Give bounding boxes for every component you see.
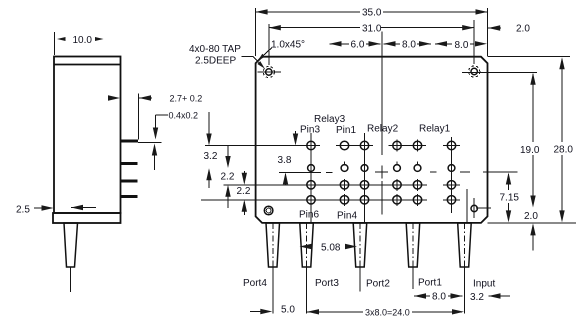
svg-text:Port2: Port2 <box>366 279 390 290</box>
svg-text:Input: Input <box>473 279 495 290</box>
screw hole bottom-left <box>264 206 273 215</box>
dim 3.2 bottom <box>470 292 510 303</box>
screw hole bottom-right <box>471 198 477 218</box>
dim 3.8 <box>278 131 299 185</box>
leader 4x tap <box>242 56 253 58</box>
svg-text:Pin3: Pin3 <box>300 125 320 136</box>
svg-text:Pin6: Pin6 <box>299 210 319 221</box>
top view body outline <box>256 57 488 223</box>
side view pin 3 <box>121 180 138 183</box>
dim 10.0 extension line <box>54 32 56 55</box>
dim 7.15 <box>483 172 519 222</box>
svg-text:3.2: 3.2 <box>204 151 218 162</box>
svg-text:2.5: 2.5 <box>16 205 30 216</box>
hole ext line right <box>462 71 537 73</box>
bottom edge extension <box>488 222 576 224</box>
svg-text:28.0: 28.0 <box>554 144 574 155</box>
top chain dim 8.0 (right) <box>435 40 487 51</box>
row1 ticks c4 c5 <box>396 140 398 152</box>
column line c3 <box>364 133 366 223</box>
dim 0.4x0.2 arrows <box>152 111 198 171</box>
dim 5.08 <box>300 243 358 254</box>
dim 31.0 <box>269 20 474 65</box>
svg-text:0.4x0.2: 0.4x0.2 <box>169 111 199 121</box>
dim 0.4x0.2 leader <box>156 114 169 116</box>
dim 2.2 upper <box>221 146 235 209</box>
side view pin 2 <box>121 162 138 165</box>
svg-text:Pin1: Pin1 <box>336 125 356 136</box>
side view fiber boot <box>64 223 78 267</box>
side view pin 1 <box>121 140 139 143</box>
screw hole top-left <box>258 66 282 77</box>
column line c6 <box>451 137 453 213</box>
svg-text:3.8: 3.8 <box>278 155 292 166</box>
dim 3x8.0=24.0 <box>307 307 464 317</box>
dim 5.0 <box>250 305 295 316</box>
leader 1.0x45 <box>261 48 272 58</box>
screw hole top-right <box>469 66 480 77</box>
port2 boot <box>353 223 367 267</box>
dim 2.7+0.2 extension line <box>138 94 140 140</box>
dim 35.0 <box>256 8 488 57</box>
svg-text:10.0: 10.0 <box>73 35 93 46</box>
input boot <box>458 223 472 267</box>
svg-text:Port1: Port1 <box>418 278 442 289</box>
pin row4 line <box>201 199 427 201</box>
svg-text:2.0: 2.0 <box>516 23 530 34</box>
svg-text:8.0: 8.0 <box>455 40 469 51</box>
svg-text:31.0: 31.0 <box>362 24 382 35</box>
svg-text:Port4: Port4 <box>243 278 267 289</box>
dim 2.5 <box>16 205 96 216</box>
svg-text:7.15: 7.15 <box>500 193 520 204</box>
svg-text:Relay3: Relay3 <box>314 114 346 125</box>
pin row1 line <box>205 145 320 147</box>
dim 2.2 lower <box>237 171 251 215</box>
svg-text:3x8.0=24.0: 3x8.0=24.0 <box>365 307 410 317</box>
svg-text:5.08: 5.08 <box>321 243 341 254</box>
svg-text:Pin4: Pin4 <box>337 211 357 222</box>
port3 boot <box>300 223 314 267</box>
axis dash-dot line <box>279 171 470 173</box>
side view lid line <box>54 64 121 66</box>
port1 boot <box>406 223 420 267</box>
svg-text:19.0: 19.0 <box>520 145 540 156</box>
dim 2.7+0.2 <box>108 94 202 104</box>
svg-text:2.0: 2.0 <box>524 211 538 222</box>
svg-text:3.2: 3.2 <box>470 292 484 303</box>
svg-text:8.0: 8.0 <box>402 39 416 50</box>
side view base plate <box>53 213 121 223</box>
svg-text:2.2: 2.2 <box>237 186 251 197</box>
center extension line <box>381 32 383 156</box>
pins: circles <box>307 141 456 204</box>
pin cross ticks <box>345 179 418 206</box>
center line lower segment <box>381 181 383 215</box>
dim 3.2 <box>204 112 218 188</box>
side view pin 4 <box>121 195 138 198</box>
svg-text:Relay1: Relay1 <box>419 123 451 134</box>
center cross <box>381 166 383 179</box>
pin1 extension line <box>138 141 162 143</box>
dim 19.0 <box>476 73 540 208</box>
dim 8.0 bottom <box>414 292 463 303</box>
column line c1 <box>310 133 312 223</box>
side view fiber <box>70 267 72 292</box>
port4 boot <box>266 223 280 267</box>
svg-text:8.0: 8.0 <box>432 292 446 303</box>
row2 ticks <box>345 162 418 166</box>
input feed line <box>466 189 468 223</box>
svg-text:35.0: 35.0 <box>362 8 382 19</box>
svg-text:5.0: 5.0 <box>281 305 295 316</box>
top chain dim 6.0 <box>330 39 381 50</box>
top chain dim 8.0 (middle) <box>384 39 432 50</box>
dim 2.0 top <box>488 23 530 34</box>
dim 2.0 bottom <box>524 211 538 251</box>
dim 28.0 <box>488 57 574 223</box>
svg-text:1.0x45°: 1.0x45° <box>271 40 305 51</box>
pin row3 line <box>223 184 427 186</box>
svg-text:2.2: 2.2 <box>221 171 235 182</box>
svg-text:6.0: 6.0 <box>351 39 365 50</box>
svg-text:2.7+ 0.2: 2.7+ 0.2 <box>170 94 203 104</box>
svg-text:2.5DEEP: 2.5DEEP <box>195 56 236 67</box>
dim 10.0 <box>57 35 104 46</box>
svg-text:4x0-80 TAP: 4x0-80 TAP <box>189 44 241 55</box>
svg-text:Relay2: Relay2 <box>367 123 399 134</box>
svg-text:Port3: Port3 <box>315 278 339 289</box>
side view body <box>54 57 121 214</box>
